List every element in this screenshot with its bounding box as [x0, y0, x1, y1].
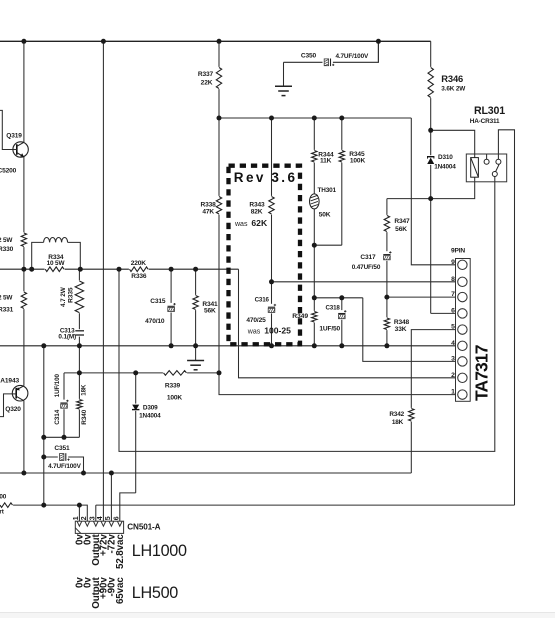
- resistor R343 82K: [268, 196, 274, 215]
- svg-text:1: 1: [73, 516, 80, 520]
- wire pin1 of TA7317: [219, 373, 458, 395]
- svg-text:4.7UF/100V: 4.7UF/100V: [48, 463, 81, 470]
- relay common contact: [486, 154, 488, 159]
- resistor R346 3.6K 2W: [428, 67, 434, 98]
- svg-text:5: 5: [105, 516, 112, 520]
- wire C314 vertical: [63, 373, 65, 437]
- svg-text:4: 4: [97, 516, 104, 520]
- capacitor C314 1UF/100: [59, 400, 68, 410]
- wire pin8 of TA7317 from C316 top: [272, 281, 458, 283]
- svg-text:4: 4: [451, 340, 455, 347]
- svg-text:52.8vac: 52.8vac: [115, 534, 126, 569]
- resistor R338 47K: [216, 196, 222, 215]
- wire R346/D310 column x=430.7: [430, 41, 432, 313]
- svg-text:1UF/50: 1UF/50: [319, 326, 340, 333]
- inductor bypass over R334: [32, 242, 44, 269]
- wire pin5 of TA7317 to R342: [411, 330, 457, 473]
- svg-text:3.6: 3.6: [271, 170, 297, 185]
- wire R341 vertical: [195, 269, 197, 346]
- resistor R330 0.22 5W: [21, 232, 27, 247]
- svg-text:R343: R343: [249, 202, 265, 209]
- wire C351 branch y=457: [44, 457, 84, 473]
- wire R345 vertical: [341, 118, 343, 245]
- wire pin2 of TA7317 from 220K bus: [239, 269, 458, 378]
- TA7317 pin 7 circle: [458, 292, 467, 301]
- wire D309 to CN501 pin6 jog: [120, 493, 136, 521]
- resistor left edge on 0v line: [0, 502, 13, 508]
- wire output line CN501 pin3 to relay rail: [95, 505, 97, 521]
- svg-text:56K: 56K: [204, 308, 216, 315]
- svg-text:33K: 33K: [395, 326, 407, 333]
- svg-text:C315: C315: [150, 298, 166, 305]
- svg-text:2 5W: 2 5W: [0, 294, 13, 301]
- svg-text:1N4004: 1N4004: [434, 164, 456, 171]
- svg-text:470/10: 470/10: [145, 318, 165, 325]
- svg-text:C317: C317: [360, 254, 376, 261]
- diode D310 1N4004: [427, 155, 435, 165]
- capacitor C351 4.7UF/100V: [58, 453, 68, 462]
- svg-text:TA7317: TA7317: [472, 345, 492, 401]
- svg-text:65vac: 65vac: [115, 577, 126, 604]
- wire R349/C318 tops to pin3 drop: [314, 297, 363, 299]
- svg-text:CN501-A: CN501-A: [127, 522, 160, 531]
- svg-text:2: 2: [451, 372, 455, 379]
- svg-text:A1943: A1943: [0, 378, 19, 385]
- svg-text:R347: R347: [394, 218, 410, 225]
- wire Q320 base: [0, 394, 12, 417]
- svg-text:1: 1: [451, 389, 455, 396]
- svg-text:4.7 2W: 4.7 2W: [60, 286, 67, 307]
- svg-text:82K: 82K: [251, 209, 263, 216]
- wire relay NO contact to long right rail x=514.5 down to output line: [498, 130, 514, 505]
- wire C315 vertical: [170, 269, 172, 346]
- wire C350 branch to ground: [284, 41, 379, 62]
- svg-text:9: 9: [451, 259, 455, 266]
- TA7317 pin 8 circle: [458, 277, 467, 286]
- TA7317 pin 5 circle: [458, 325, 467, 334]
- wire 0v line to CN501 pins 1-2: [0, 505, 87, 521]
- svg-text:10 5W: 10 5W: [47, 260, 66, 267]
- resistor R339 100K: [163, 370, 187, 376]
- svg-text:RL301: RL301: [474, 105, 505, 117]
- resistor R336 220K: [129, 266, 149, 272]
- capacitor C313 0.1(M): [75, 329, 85, 336]
- svg-text:C5200: C5200: [0, 168, 17, 175]
- svg-text:C314: C314: [54, 409, 61, 424]
- resistor R341 56K: [192, 295, 198, 310]
- TA7317 pin 1 circle: [458, 390, 467, 399]
- svg-text:220K: 220K: [131, 260, 147, 267]
- svg-text:R335: R335: [68, 287, 75, 303]
- svg-text:7: 7: [451, 291, 455, 298]
- svg-text:LH500: LH500: [132, 584, 178, 602]
- svg-text:R330: R330: [0, 246, 14, 253]
- svg-text:9PIN: 9PIN: [451, 247, 465, 254]
- svg-text:3: 3: [90, 516, 97, 520]
- relay moving contact: [492, 172, 497, 177]
- svg-text:C318: C318: [325, 305, 340, 312]
- wire R335/C313/R340 column x=79.4: [78, 269, 80, 437]
- wire CN501 pin1 drop: [78, 505, 80, 521]
- svg-text:1N4004: 1N4004: [139, 412, 161, 419]
- svg-text:11K: 11K: [320, 157, 332, 164]
- svg-text:56K: 56K: [395, 226, 407, 233]
- resistor R331 0.22 5W: [21, 291, 27, 309]
- resistor R337 22K: [216, 67, 222, 89]
- wire C314/R340 bottom link y=437.3: [44, 436, 80, 438]
- svg-text:LH1000: LH1000: [132, 542, 187, 560]
- svg-text:0.1(M): 0.1(M): [58, 333, 76, 340]
- svg-text:0.47UF/50: 0.47UF/50: [352, 264, 381, 271]
- svg-text:Rev: Rev: [234, 170, 266, 185]
- CN501 pin forks: [77, 521, 82, 526]
- capacitor C315 470/10: [167, 303, 176, 313]
- svg-text:C350: C350: [301, 53, 317, 60]
- svg-text:18K: 18K: [392, 419, 404, 426]
- svg-text:D309: D309: [143, 405, 158, 412]
- svg-text:R346: R346: [441, 73, 463, 84]
- resistor R335 4.7 2W: [76, 280, 82, 313]
- wire +72v rail x=103.4 top bus to CN501 pin4: [102, 41, 104, 521]
- wire D309 column x=135.7: [135, 373, 137, 493]
- svg-text:R339: R339: [165, 382, 181, 389]
- svg-text:Q320: Q320: [5, 406, 21, 413]
- capacitor C350 4.7UF/100V: [323, 58, 333, 67]
- svg-text:Q319: Q319: [6, 132, 22, 139]
- connector CN501-A box: [75, 521, 123, 533]
- svg-text:50K: 50K: [319, 212, 331, 219]
- wire bottom bus y=345.8 to pin4: [0, 345, 458, 347]
- resistor R344 11K: [311, 150, 317, 163]
- svg-text:3.6K 2W: 3.6K 2W: [441, 86, 466, 93]
- svg-text:TH301: TH301: [318, 187, 337, 194]
- wire CN501 pin5 drop: [110, 473, 112, 521]
- resistor R334 10 5W: [45, 266, 65, 272]
- svg-text:300: 300: [0, 494, 7, 501]
- svg-text:2: 2: [81, 516, 88, 520]
- ground below C350: [283, 62, 285, 86]
- resistor R342 18K: [408, 408, 414, 422]
- junction dots: [21, 39, 26, 44]
- TA7317 pin 9 circle: [458, 260, 467, 269]
- bottom page edge strip: [0, 612, 555, 614]
- svg-text:R338: R338: [201, 202, 217, 209]
- resistor R340 18K: [76, 399, 82, 410]
- svg-text:3: 3: [451, 355, 455, 362]
- resistor R347 56K: [384, 215, 390, 232]
- capacitor C316 470/25: [267, 304, 276, 314]
- wire R344/TH301/R349 column x=314.3: [313, 118, 315, 346]
- relay armature: [496, 164, 500, 171]
- svg-text:5: 5: [451, 324, 455, 331]
- svg-text:1UF/100: 1UF/100: [54, 374, 61, 398]
- wire R337/R338 column x=219: [218, 41, 220, 373]
- svg-text:47K: 47K: [202, 209, 214, 216]
- capacitor C318 1UF/50: [337, 310, 346, 320]
- wire main 220K bus y=269: [0, 268, 239, 270]
- svg-text:R348: R348: [394, 319, 410, 326]
- wire pin6 of TA7317 from D310 line: [431, 312, 458, 314]
- svg-text:D310: D310: [438, 154, 453, 161]
- TA7317 9PIN connector box: [456, 259, 471, 402]
- wire D310 junction to relay coil top: [431, 130, 475, 157]
- wire R342 ground line y=473: [0, 472, 411, 474]
- svg-text:2 5W: 2 5W: [0, 237, 13, 244]
- wire Q319 collector from top bus: [23, 41, 25, 142]
- wire top supply bus y=41: [0, 40, 431, 42]
- ground below R341: [195, 346, 197, 361]
- relay NO contact: [496, 159, 501, 164]
- wire relay coil bottom to R347 top: [387, 177, 475, 198]
- wire TH301 bottom to R345 bottom: [314, 244, 342, 246]
- resistor R349: [311, 311, 317, 323]
- svg-text:18K: 18K: [80, 384, 87, 396]
- diode D309 1N4004: [132, 404, 140, 411]
- wire R339 line y=372.9: [64, 372, 219, 374]
- svg-text:R336: R336: [131, 273, 147, 280]
- svg-text:R342: R342: [389, 411, 404, 418]
- wire Q319 emitter / R330 / R331 / Q320 emitter column: [23, 157, 25, 386]
- svg-text:470/25: 470/25: [246, 317, 266, 324]
- capacitor C317 0.47UF/50: [382, 251, 391, 261]
- svg-text:22K: 22K: [201, 80, 213, 87]
- wire relay contact to 220K bus drop y=451.4: [119, 176, 495, 451]
- svg-text:6: 6: [114, 516, 121, 520]
- relay RL301 HA-CR311 box: [466, 154, 506, 182]
- TA7317 pin 3 circle: [458, 357, 467, 366]
- svg-text:8: 8: [451, 276, 455, 283]
- svg-text:C351: C351: [54, 445, 70, 452]
- svg-text:100K: 100K: [167, 394, 183, 401]
- svg-text:C316: C316: [255, 296, 270, 303]
- dashed revision box Rev 3.6: [229, 166, 301, 345]
- wire Q320 collector to ground line: [23, 401, 25, 473]
- wire R343/C316 column x=271.5: [271, 118, 273, 346]
- svg-text:100K: 100K: [350, 157, 366, 164]
- svg-text:6: 6: [451, 307, 455, 314]
- wire x=43.8 column C314/C351: [43, 346, 45, 505]
- wire Q319 base: [0, 110, 13, 149]
- svg-text:HA-CR311: HA-CR311: [470, 118, 500, 125]
- resistor R348 33K: [384, 317, 390, 330]
- thermistor TH301 50K: [310, 194, 320, 209]
- svg-text:R331: R331: [0, 307, 14, 314]
- transistor Q320 2SA1943 PNP: [12, 385, 28, 401]
- wire pin7 of TA7317 from C317/R348 junction: [387, 296, 458, 298]
- TA7317 pin 2 circle: [458, 373, 467, 382]
- wire pin9 of TA7317: [411, 118, 457, 265]
- svg-text:R340: R340: [81, 409, 88, 424]
- TA7317 pin 6 circle: [458, 309, 467, 318]
- transistor Q319 2SC5200 NPN: [13, 142, 28, 157]
- wire y=118 node bus: [219, 117, 411, 119]
- wire C318 vertical: [341, 298, 343, 346]
- svg-text:4.7UF/100V: 4.7UF/100V: [335, 53, 368, 60]
- TA7317 pin 4 circle: [458, 341, 467, 350]
- resistor R345 100K: [339, 150, 345, 163]
- relay coil: [471, 158, 479, 178]
- wire C350 riser: [377, 41, 379, 62]
- wire pin3 of TA7317: [363, 298, 458, 362]
- wire R347/C317/R348 column x=386.9: [386, 199, 388, 346]
- svg-text:R337: R337: [198, 71, 214, 78]
